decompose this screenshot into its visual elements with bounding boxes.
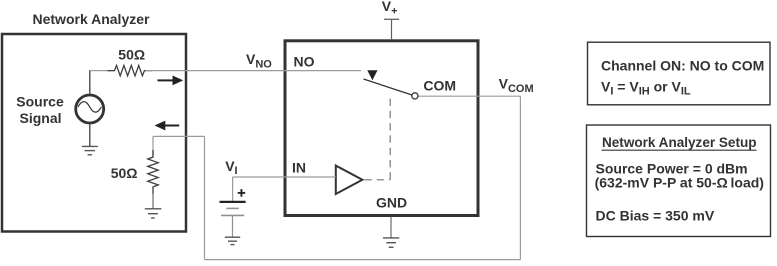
battery VI plates	[220, 202, 246, 216]
wire R2 to ground	[152, 194, 154, 209]
wire NO net left lead	[90, 70, 115, 72]
wire V+ to box	[391, 19, 393, 40]
wire VI to IN	[233, 176, 336, 178]
svg-text:V+: V+	[382, 0, 398, 17]
svg-text:COM: COM	[423, 77, 456, 93]
svg-text:Source: Source	[16, 93, 64, 109]
source signal generator	[76, 95, 104, 123]
svg-text:Network Analyzer: Network Analyzer	[33, 11, 151, 27]
DUT switch box	[285, 41, 478, 216]
wire source to NO net	[89, 70, 91, 94]
V+ supply terminal bar	[384, 18, 399, 20]
ground R2	[145, 209, 162, 218]
battery VI plus sign	[238, 189, 246, 197]
svg-text:Signal: Signal	[19, 110, 61, 126]
info box 2	[587, 125, 771, 237]
svg-text:(632-mV P-P at 50-Ω load): (632-mV P-P at 50-Ω load)	[595, 175, 764, 191]
svg-text:NO: NO	[294, 53, 315, 69]
svg-text:VI: VI	[225, 158, 237, 177]
svg-text:DC Bias = 350 mV: DC Bias = 350 mV	[596, 207, 715, 223]
svg-text:VCOM: VCOM	[499, 76, 534, 95]
ground GND pin	[383, 238, 399, 247]
info box 1	[588, 42, 771, 105]
wire receiver vertical	[204, 136, 206, 259]
resistor R1 50 ohm series	[108, 65, 152, 75]
svg-text:Network Analyzer Setup: Network Analyzer Setup	[602, 134, 757, 150]
wire VCOM vertical	[519, 96, 521, 259]
arrow signal direction left	[155, 121, 180, 131]
svg-text:50Ω: 50Ω	[111, 165, 138, 181]
wire GND pin to ground	[390, 217, 392, 238]
wire bottom return	[205, 259, 521, 261]
wire VI source stub	[232, 177, 234, 201]
wire battery to ground	[232, 215, 234, 236]
dashed control line horizontal	[364, 179, 390, 181]
wire COM to VCOM	[418, 95, 520, 97]
network analyzer enclosure box	[2, 34, 186, 232]
wire source to ground	[89, 123, 91, 146]
resistor R2 50 ohm termination	[148, 150, 158, 194]
svg-text:IN: IN	[292, 160, 306, 176]
ground battery	[225, 237, 240, 244]
buffer driver U1	[336, 166, 363, 194]
switch COM contact	[412, 93, 418, 99]
switch blade	[364, 79, 412, 95]
wire receiver horizontal	[153, 135, 205, 137]
svg-text:Channel ON: NO to COM: Channel ON: NO to COM	[601, 57, 764, 73]
dashed control line vertical	[389, 99, 391, 180]
ground source	[82, 146, 98, 154]
switch pole arrow	[367, 70, 377, 80]
svg-text:VNO: VNO	[246, 51, 272, 70]
svg-text:50Ω: 50Ω	[118, 47, 145, 63]
wire NO net to switch	[146, 70, 362, 72]
svg-text:GND: GND	[376, 194, 407, 210]
arrow signal direction right	[158, 76, 184, 86]
wire to termination resistor	[152, 136, 154, 157]
svg-text:VI = VIH or VIL: VI = VIH or VIL	[601, 78, 691, 97]
